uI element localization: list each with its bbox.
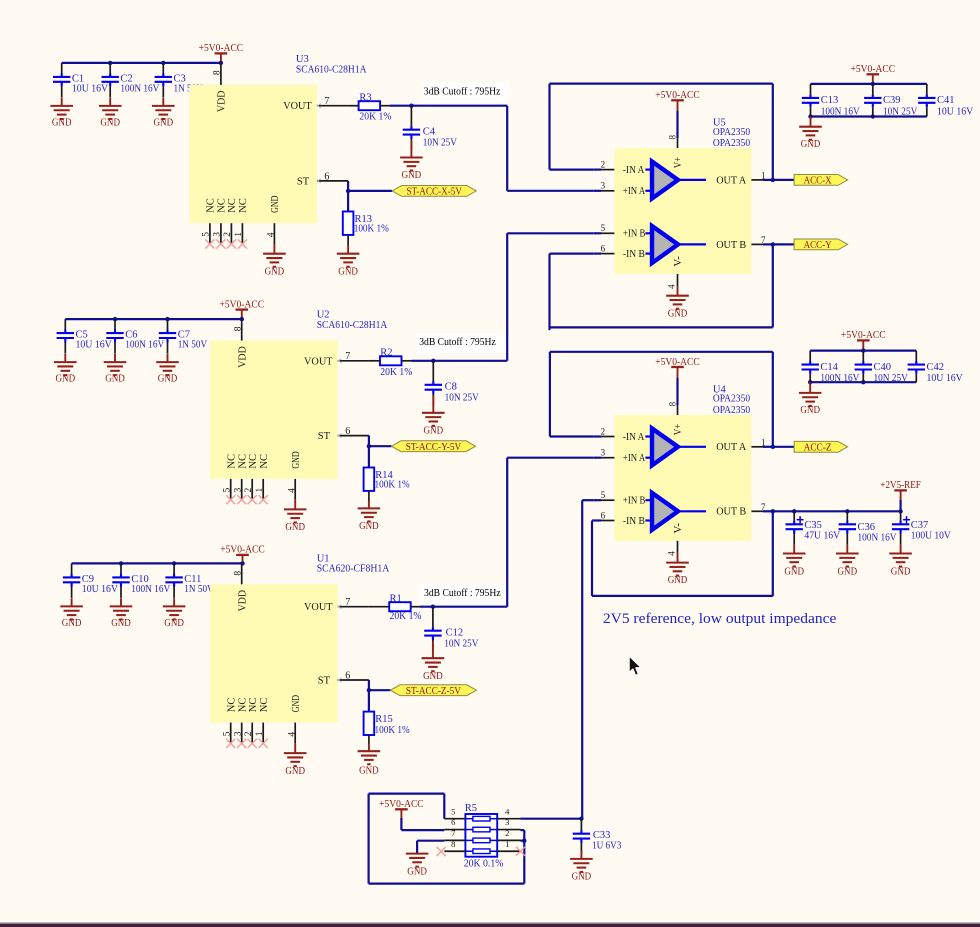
svg-text:GND: GND	[800, 405, 820, 416]
ground at C35	[793, 545, 795, 554]
svg-text:V+: V+	[673, 157, 684, 169]
no-connect R5 pin 8	[437, 847, 446, 856]
svg-text:10U 16V: 10U 16V	[76, 340, 113, 351]
svg-text:2: 2	[244, 731, 254, 736]
svg-text:VDD: VDD	[238, 590, 249, 612]
svg-text:VDD: VDD	[238, 346, 249, 368]
port ST-ACC-Z-5V	[390, 685, 476, 696]
ground at bank1	[810, 117, 812, 127]
note 3dB cutoff row 1	[421, 82, 509, 102]
U4 pin 4 V-	[677, 541, 679, 553]
svg-text:R15: R15	[375, 714, 393, 725]
svg-text:8: 8	[668, 401, 678, 406]
capacitor C10	[120, 563, 122, 598]
svg-text:GND: GND	[668, 575, 688, 586]
capacitor C41	[926, 84, 928, 117]
svg-text:GND: GND	[285, 766, 305, 777]
svg-text:C13: C13	[821, 95, 839, 106]
svg-text:ACC-Y: ACC-Y	[804, 240, 832, 251]
port ACC-X	[794, 175, 848, 186]
svg-text:100N 16V: 100N 16V	[820, 373, 859, 384]
svg-text:1: 1	[234, 232, 244, 237]
svg-text:3: 3	[213, 232, 223, 237]
svg-text:2: 2	[505, 828, 509, 838]
junction	[165, 317, 169, 321]
ground at U5 pin 4	[677, 286, 679, 296]
mouse cursor	[629, 656, 641, 676]
svg-text:100K 1%: 100K 1%	[375, 480, 410, 491]
wire ST to port (row3)	[368, 680, 370, 690]
U4 pin 6 -IN B	[594, 519, 601, 521]
capacitor C6	[114, 319, 116, 354]
svg-text:NC: NC	[259, 698, 270, 713]
svg-text:SCA610-C28H1A: SCA610-C28H1A	[317, 320, 388, 331]
svg-text:10U 16V: 10U 16V	[82, 584, 119, 595]
svg-text:5: 5	[223, 731, 233, 736]
svg-text:GND: GND	[270, 195, 281, 213]
svg-text:GND: GND	[407, 866, 427, 877]
U5 pin 1 OUT A	[751, 179, 763, 181]
wire +5V rail row3	[72, 562, 243, 564]
svg-text:NC: NC	[226, 454, 237, 469]
svg-text:SCA620-CF8H1A: SCA620-CF8H1A	[317, 564, 390, 575]
wire bank2 top rail	[810, 350, 916, 352]
svg-text:ST-ACC-Y-5V: ST-ACC-Y-5V	[406, 442, 462, 453]
ground at R5 pin 7	[406, 854, 429, 867]
junction	[172, 561, 176, 565]
junction	[808, 114, 812, 118]
svg-text:VDD: VDD	[217, 90, 228, 112]
capacitor C13	[810, 84, 812, 117]
capacitor C35	[793, 511, 795, 545]
wire node to R13	[347, 191, 349, 212]
svg-text:-IN A: -IN A	[623, 165, 645, 176]
junction	[119, 561, 123, 565]
svg-text:GND: GND	[111, 618, 131, 629]
IC body U2	[210, 341, 338, 479]
U3 pin 2 NC	[230, 223, 232, 244]
wire U5 OUT B to ACC-Y	[773, 243, 794, 245]
svg-text:7: 7	[761, 502, 766, 512]
port ACC-Y	[794, 239, 848, 250]
svg-text:2: 2	[601, 426, 606, 436]
svg-text:GND: GND	[338, 266, 358, 277]
wire R1 to node	[420, 606, 507, 608]
IC body U1	[210, 584, 338, 722]
svg-text:1N 50V: 1N 50V	[178, 340, 208, 351]
junction node Y-filt	[431, 359, 435, 363]
op-amp U5A triangle	[645, 162, 706, 199]
U4 pin 3 +IN A	[594, 457, 601, 459]
svg-text:47U 16V: 47U 16V	[804, 531, 840, 542]
svg-text:GND: GND	[359, 766, 379, 777]
capacitor C4	[410, 106, 412, 151]
window bottom bar	[0, 922, 980, 923]
R5 pin 3	[497, 829, 520, 831]
U2 pin 7 VOUT	[338, 360, 369, 362]
resistor R13	[343, 212, 354, 235]
svg-text:6: 6	[345, 426, 350, 437]
svg-text:GND: GND	[291, 451, 302, 469]
svg-text:OPA2350: OPA2350	[713, 405, 750, 416]
capacitor C5	[64, 319, 66, 354]
svg-text:ST-ACC-X-5V: ST-ACC-X-5V	[406, 187, 462, 198]
svg-text:1: 1	[255, 488, 265, 493]
svg-text:3: 3	[601, 181, 606, 191]
ground at C9	[71, 598, 73, 606]
resistor network R5	[465, 814, 497, 857]
junction	[771, 178, 775, 182]
ground at C8	[432, 396, 434, 413]
svg-text:GND: GND	[291, 695, 302, 713]
svg-text:+IN A: +IN A	[623, 186, 646, 197]
ground at C11	[173, 598, 175, 606]
svg-text:3dB Cutoff : 795Hz: 3dB Cutoff : 795Hz	[424, 588, 501, 599]
svg-text:GND: GND	[801, 139, 821, 150]
wire U4 OUT A to ACC-Z	[773, 446, 794, 448]
svg-text:100N 16V: 100N 16V	[131, 584, 170, 595]
svg-text:V-: V-	[673, 522, 684, 533]
svg-text:8: 8	[234, 326, 244, 331]
ground at U3 pin 4	[273, 244, 275, 254]
port ACC-Z	[794, 441, 848, 452]
svg-text:-IN B: -IN B	[623, 516, 645, 527]
R5 pin 1	[497, 850, 520, 852]
svg-text:5: 5	[601, 223, 606, 233]
svg-text:+IN B: +IN B	[623, 496, 646, 507]
svg-text:C40: C40	[874, 362, 892, 373]
capacitor C12	[432, 607, 434, 652]
svg-text:GND: GND	[784, 567, 804, 578]
wire node to U4 pin3	[506, 458, 508, 607]
note 3dB cutoff row 2	[417, 333, 509, 353]
svg-text:NC: NC	[226, 698, 237, 713]
svg-text:NC: NC	[259, 454, 270, 469]
svg-text:ST: ST	[318, 676, 331, 687]
svg-text:3dB Cutoff : 795Hz: 3dB Cutoff : 795Hz	[419, 337, 496, 348]
svg-text:C39: C39	[883, 95, 901, 106]
wire U4 feedback B	[772, 511, 774, 596]
svg-text:+IN A: +IN A	[623, 453, 646, 464]
U1 pin 2 NC	[251, 723, 253, 744]
svg-text:8: 8	[213, 70, 223, 75]
svg-text:5: 5	[202, 232, 212, 237]
svg-text:2: 2	[601, 159, 606, 169]
svg-text:GND: GND	[424, 426, 444, 437]
wire node to U5 pin5	[506, 233, 508, 360]
svg-text:OPA2350: OPA2350	[713, 138, 750, 149]
wire U5 feedback B	[772, 244, 774, 327]
U5 pin 5 +IN B	[594, 232, 601, 234]
R5 pin 7	[444, 839, 465, 841]
capacitor C7	[167, 319, 169, 354]
svg-text:+IN B: +IN B	[623, 229, 646, 240]
ground at C12	[432, 641, 434, 658]
svg-text:GND: GND	[668, 308, 688, 319]
ground at bank2	[809, 382, 811, 393]
svg-text:OUT B: OUT B	[716, 240, 746, 251]
svg-text:ST-ACC-Z-5V: ST-ACC-Z-5V	[406, 686, 461, 697]
ground at C37	[900, 545, 902, 554]
svg-text:NC: NC	[248, 698, 259, 713]
wire +5V rail row1	[62, 62, 221, 64]
svg-text:R3: R3	[359, 92, 371, 103]
svg-text:ST: ST	[297, 176, 310, 187]
svg-text:V+: V+	[673, 424, 684, 436]
U1 pin 8 VDD	[241, 563, 243, 584]
wire U4 OUT B reference rail	[773, 510, 901, 512]
capacitor C9	[71, 563, 73, 598]
svg-text:6: 6	[324, 171, 329, 182]
junction	[771, 445, 775, 449]
U3 pin 7 VOUT	[317, 105, 348, 107]
wire U4 pin5 to reference divider	[582, 499, 594, 501]
svg-text:20K 1%: 20K 1%	[359, 112, 391, 123]
ground at R13	[347, 235, 349, 245]
svg-text:NC: NC	[237, 454, 248, 469]
U4 pin 2 -IN A	[594, 435, 601, 437]
svg-text:10U 16V: 10U 16V	[72, 84, 109, 95]
U3 pin 5 NC	[209, 223, 211, 244]
IC body U3	[189, 85, 317, 223]
svg-text:C12: C12	[446, 628, 464, 639]
junction	[792, 509, 796, 513]
wire +5V rail row2	[65, 318, 242, 320]
svg-text:GND: GND	[56, 374, 76, 385]
U1 pin 7 VOUT	[338, 606, 369, 608]
U2 pin 3 NC	[241, 479, 243, 500]
op-amp U4A triangle	[645, 428, 706, 465]
wire bank1 bottom rail	[811, 115, 927, 117]
port ST-ACC-Y-5V	[392, 441, 476, 452]
svg-text:OUT A: OUT A	[716, 175, 746, 186]
svg-text:1: 1	[761, 170, 766, 180]
svg-text:7: 7	[345, 351, 350, 362]
wire U5 feedback A	[772, 84, 774, 180]
svg-text:3: 3	[601, 448, 606, 458]
svg-text:5: 5	[601, 490, 606, 500]
U2 pin 1 NC	[262, 479, 264, 500]
junction	[808, 380, 812, 384]
U4 pin 5 +IN B	[594, 499, 601, 501]
svg-text:7: 7	[451, 828, 455, 838]
svg-text:C42: C42	[927, 362, 945, 373]
svg-text:2: 2	[223, 232, 233, 237]
ground at C1	[61, 98, 63, 106]
capacitor C39	[872, 84, 874, 117]
R5 pin 4	[497, 818, 520, 820]
capacitor C14	[809, 351, 811, 383]
svg-text:10N 25V: 10N 25V	[883, 106, 918, 117]
svg-text:1: 1	[505, 839, 509, 849]
svg-text:4: 4	[505, 806, 510, 816]
U5 pin 4 V-	[677, 274, 679, 286]
svg-text:GND: GND	[154, 118, 174, 129]
svg-text:C36: C36	[858, 522, 876, 533]
svg-text:3: 3	[505, 817, 509, 827]
svg-text:NC: NC	[248, 454, 259, 469]
svg-text:OPA2350: OPA2350	[713, 394, 750, 405]
junction	[367, 444, 371, 448]
svg-text:R2: R2	[380, 347, 392, 358]
junction	[861, 348, 865, 352]
ground at C36	[846, 545, 848, 554]
ground at U1 pin 4	[294, 743, 296, 753]
svg-text:ACC-X: ACC-X	[804, 176, 832, 187]
U2 pin 5 NC	[230, 479, 232, 500]
junction	[113, 317, 117, 321]
ground at C7	[167, 354, 169, 362]
capacitor C11	[173, 563, 175, 598]
R5 pin 8	[444, 850, 465, 852]
svg-text:C4: C4	[423, 127, 436, 138]
svg-text:GND: GND	[265, 266, 285, 277]
svg-text:20K 1%: 20K 1%	[390, 611, 422, 622]
svg-text:4: 4	[267, 232, 277, 237]
svg-text:GND: GND	[891, 567, 911, 578]
svg-text:100N 16V: 100N 16V	[821, 106, 860, 117]
svg-text:GND: GND	[572, 872, 592, 883]
resistor R14	[364, 468, 375, 491]
U2 pin 8 VDD	[241, 319, 243, 341]
ground at C6	[114, 354, 116, 362]
junction node X-filt	[409, 104, 413, 108]
R5 pin 5	[444, 818, 465, 820]
svg-text:1: 1	[761, 437, 766, 447]
svg-text:2V5 reference, low output impe: 2V5 reference, low output impedance	[603, 611, 837, 627]
U5 pin 6 -IN B	[594, 253, 601, 255]
svg-text:R5: R5	[465, 803, 477, 814]
svg-text:8: 8	[668, 135, 678, 140]
svg-text:100K 1%: 100K 1%	[354, 224, 389, 235]
ground at U2 pin 4	[294, 500, 296, 510]
junction	[522, 839, 526, 843]
op-amp U4B triangle	[645, 493, 706, 530]
svg-text:6: 6	[451, 817, 455, 827]
ground at U4 pin 4	[677, 553, 679, 563]
U2 pin 4 GND	[294, 479, 296, 500]
wire U5 OUT A to ACC-X	[773, 179, 794, 181]
capacitor C2	[109, 63, 111, 98]
IC body U5	[614, 148, 751, 274]
wire U4 feedback A	[772, 352, 774, 447]
ground at C2	[109, 98, 111, 106]
resistor R2	[380, 356, 402, 365]
U3 pin 4 GND	[273, 223, 275, 244]
svg-text:7: 7	[761, 235, 766, 245]
U4 pin 7 OUT B	[751, 510, 763, 512]
capacitor C36	[846, 511, 848, 545]
ground at R15	[368, 735, 370, 744]
junction	[771, 242, 775, 246]
junction	[845, 509, 849, 513]
svg-text:GND: GND	[105, 374, 125, 385]
svg-text:VOUT: VOUT	[304, 356, 333, 367]
ground at C3	[162, 98, 164, 106]
no-connect R5 pin 1	[516, 847, 525, 856]
svg-text:C41: C41	[937, 95, 955, 106]
IC body U4	[614, 415, 751, 541]
svg-text:10N 25V: 10N 25V	[445, 392, 480, 403]
junction	[108, 61, 112, 65]
svg-text:20K 1%: 20K 1%	[380, 367, 412, 378]
wire bank1 top rail	[811, 83, 927, 85]
svg-text:3: 3	[234, 488, 244, 493]
junction	[346, 189, 350, 193]
wire node to R14	[368, 446, 370, 467]
svg-text:-IN B: -IN B	[623, 249, 645, 260]
capacitor C1	[61, 63, 63, 98]
U2 pin 6 ST	[338, 435, 369, 437]
U3 pin 6 ST	[317, 180, 348, 182]
svg-text:VOUT: VOUT	[283, 101, 312, 112]
U1 pin 3 NC	[241, 723, 243, 744]
svg-text:5: 5	[223, 488, 233, 493]
junction	[161, 61, 165, 65]
capacitor C3	[162, 63, 164, 98]
svg-text:6: 6	[601, 243, 606, 253]
capacitor C42	[915, 351, 917, 383]
capacitor C37	[900, 511, 902, 545]
U5 pin 2 -IN A	[594, 169, 601, 171]
svg-text:U3: U3	[296, 54, 309, 65]
svg-text:1U 6V3: 1U 6V3	[592, 841, 621, 852]
svg-text:NC: NC	[238, 198, 249, 213]
svg-text:C33: C33	[593, 830, 611, 841]
svg-text:8: 8	[451, 839, 455, 849]
svg-text:V-: V-	[673, 256, 684, 267]
R5 pin 6	[444, 829, 465, 831]
svg-text:10N 25V: 10N 25V	[874, 373, 909, 384]
wire R5 pin4 to C33 node	[521, 818, 582, 820]
wire R5 loop (pin5 to pins 2/3)	[443, 794, 445, 819]
junction node 2V5 ref	[579, 817, 583, 821]
svg-text:NC: NC	[227, 198, 238, 213]
wire R3 to node	[390, 105, 507, 107]
svg-text:100N 16V: 100N 16V	[120, 84, 159, 95]
junction node Z-filt	[431, 605, 435, 609]
svg-text:1N 50V: 1N 50V	[184, 584, 214, 595]
svg-text:VOUT: VOUT	[304, 602, 333, 613]
svg-text:2: 2	[244, 488, 254, 493]
svg-text:GND: GND	[52, 118, 72, 129]
ground at R14	[368, 491, 370, 501]
ground at C5	[64, 354, 66, 362]
svg-text:7: 7	[345, 597, 350, 608]
svg-text:GND: GND	[402, 170, 422, 181]
op-amp U5B triangle	[645, 226, 706, 263]
svg-text:-IN A: -IN A	[623, 432, 645, 443]
svg-text:3: 3	[234, 731, 244, 736]
wire bank2 bottom rail	[810, 381, 916, 383]
junction	[898, 509, 902, 513]
svg-text:NC: NC	[237, 698, 248, 713]
wire node to R15	[368, 690, 370, 711]
svg-text:4: 4	[666, 551, 676, 556]
wire R2 to node	[412, 360, 508, 362]
svg-text:6: 6	[601, 510, 606, 520]
resistor R1	[389, 602, 411, 611]
svg-text:GND: GND	[100, 118, 120, 129]
junction	[771, 509, 775, 513]
svg-text:GND: GND	[164, 618, 184, 629]
ground at C33	[580, 851, 582, 859]
svg-text:5: 5	[451, 806, 455, 816]
wire R5 pin7 to ground	[417, 840, 444, 842]
svg-text:10N 25V: 10N 25V	[444, 638, 479, 649]
svg-text:NC: NC	[206, 198, 217, 213]
U1 pin 6 ST	[338, 679, 369, 681]
